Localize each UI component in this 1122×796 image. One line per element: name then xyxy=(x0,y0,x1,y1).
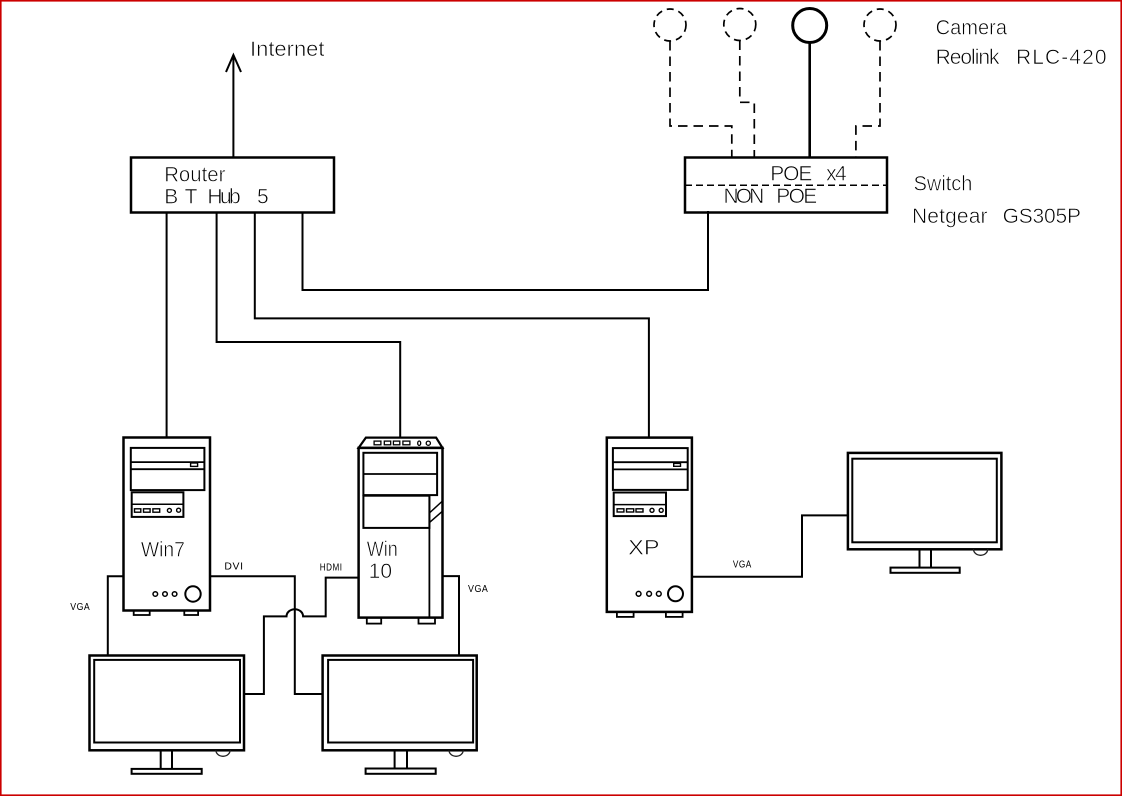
wire router port3 to XP xyxy=(255,213,649,438)
svg-text:Switch: Switch xyxy=(914,173,973,196)
wire camera1 to switch (dashed) xyxy=(670,41,732,158)
wire camera2 to switch (dashed) xyxy=(740,41,755,158)
camera 3 solid circle xyxy=(793,9,827,43)
wire router port2 to Win10 xyxy=(217,213,401,438)
svg-text:10: 10 xyxy=(369,560,393,583)
XP tower xyxy=(607,438,692,617)
monitor 3 xyxy=(848,453,1002,573)
svg-text:VGA: VGA xyxy=(733,560,752,571)
monitor 1 xyxy=(90,656,245,774)
wire VGA Win10 to monitor2 xyxy=(443,576,460,655)
monitor 2 xyxy=(323,656,477,774)
svg-text:HDMI: HDMI xyxy=(320,563,343,574)
wire camera3 to switch xyxy=(808,43,811,158)
wire router port1 to Win7 xyxy=(166,213,168,438)
svg-text:DVI: DVI xyxy=(224,562,243,573)
wire router port4 to switch xyxy=(303,211,709,290)
Win10 tower xyxy=(359,438,443,624)
internet arrow xyxy=(226,55,241,158)
camera 2 dashed circle xyxy=(724,9,756,41)
camera 1 dashed circle xyxy=(654,9,686,41)
svg-text:ReolinkRLC-420: ReolinkRLC-420 xyxy=(936,46,1107,69)
svg-text:POEx4: POEx4 xyxy=(770,163,847,186)
wire camera4 to switch (dashed) xyxy=(856,41,880,158)
wire DVI Win7 to monitor2 xyxy=(210,576,323,694)
svg-text:Camera: Camera xyxy=(936,17,1008,40)
svg-text:Router: Router xyxy=(164,164,225,187)
svg-text:Internet: Internet xyxy=(250,38,325,61)
svg-text:Win7: Win7 xyxy=(141,539,185,562)
router box BT Hub 5 xyxy=(131,158,334,213)
Win7 tower xyxy=(124,438,211,616)
svg-text:VGA: VGA xyxy=(468,584,488,595)
svg-text:XP: XP xyxy=(628,537,659,560)
switch box POE xyxy=(685,158,887,213)
camera 4 dashed circle xyxy=(864,9,896,41)
wire VGA Win7 to monitor1 xyxy=(108,576,124,655)
wire VGA XP to monitor3 xyxy=(692,515,848,576)
svg-text:VGA: VGA xyxy=(70,602,90,613)
wire HDMI Win10 to monitor1 (with hop over DVI wire) xyxy=(244,578,359,694)
svg-text:Win: Win xyxy=(367,538,398,561)
